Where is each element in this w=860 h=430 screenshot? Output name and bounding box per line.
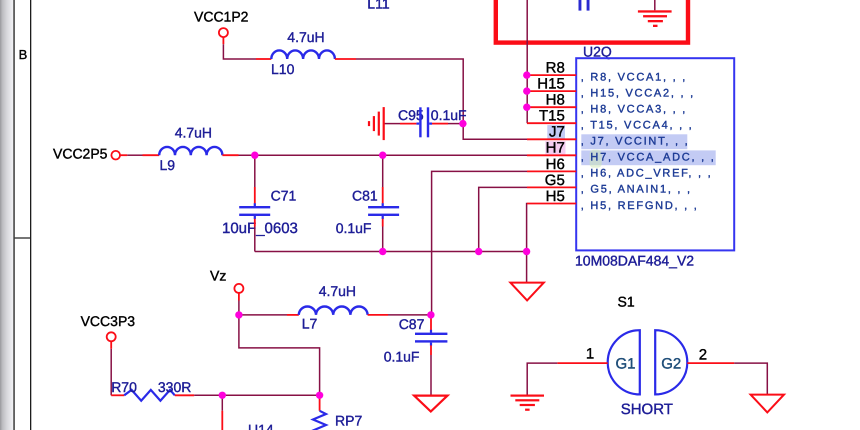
wire Vz elbow down to R70 bus [239,315,320,395]
earth ground inside red box [638,10,672,27]
svg-text:J7: J7 [549,124,565,141]
inductor L7 coil [299,307,368,315]
earth ground (rotated, left of C95) [368,107,385,140]
wire red stub out of L9 [222,154,238,156]
svg-text:, T15, VCCA4, , ,: , T15, VCCA4, , , [581,120,694,132]
wire pin1 to earth ground [527,363,557,395]
svg-text:0.1uF: 0.1uF [336,220,372,236]
junction node U14 [219,392,226,399]
svg-text:4.7uH: 4.7uH [175,124,212,140]
svg-text:G2: G2 [661,355,681,372]
wire VCC2P5 to L9 [127,154,142,156]
wire red stub out of R70 [175,394,194,396]
capacitor C87 plates [430,330,432,333]
wire C87 to ground [430,355,432,396]
highlight green marker on H7 [590,150,602,168]
highlight VCCA_ADC row [581,150,715,165]
wire VCC1P2 down and to L10 [223,44,256,59]
sheet border gray strip [0,0,31,430]
pin H7 stub [527,154,576,156]
wire VCCA vertical from top [526,0,528,123]
wire C71 bottom to bus2 [254,227,256,252]
svg-text:H7: H7 [546,140,565,157]
wire C95 right to junction [448,123,463,125]
junction node at C95 tap [459,120,466,127]
junction node C81/bus2 [379,248,386,255]
wire red stub C81 bottom [382,219,384,227]
pin R8 stub [527,74,576,76]
wire H6 (ADC_VREF) [432,171,527,315]
wire L10 to J7 elbow [356,59,527,139]
pin 2 stub [687,362,734,364]
power port VCC1P2 pin circle [219,28,228,37]
wire H5 (REFGND) [526,204,528,252]
wire main bus to H7 [239,154,528,156]
capacitor C81 plates [382,203,384,206]
pin H6 stub [527,170,576,172]
pin red stub RP7 [319,395,321,411]
wire Vz down [238,301,240,315]
wire R70 bus [194,394,319,396]
wire red stub out of L10 [335,58,356,60]
wire red stub C95 right [432,123,448,125]
power port VCC2P5 pin circle [111,151,120,160]
junction node C87 [427,311,434,318]
pin red stub below Vz [238,293,240,301]
svg-text:H8: H8 [546,92,565,109]
wire red stub into L9 [143,154,160,156]
svg-text:, H15, VCCA2, , ,: , H15, VCCA2, , , [581,87,695,99]
pin red stub below VCC1P2 [222,37,224,44]
svg-text:, H6, ADC_VREF, , ,: , H6, ADC_VREF, , , [581,168,713,180]
svg-text:, H5, REFGND, , ,: , H5, REFGND, , , [581,200,699,212]
svg-text:R8: R8 [546,60,565,77]
wire C81 bottom to bus2 [382,227,384,252]
svg-text:H15: H15 [537,76,565,93]
junction node H15 [523,87,530,94]
sheet border outer line [30,0,31,430]
sheet border inner line [13,0,14,430]
highlight J7 pin label [547,125,565,139]
svg-text:, G5, ANAIN1, , ,: , G5, ANAIN1, , , [581,184,692,196]
pin 1 stub [557,362,607,364]
jumper S1 half G1 [608,330,640,394]
pin red stub right of VCC2P5 [120,154,127,156]
svg-text:L9: L9 [160,157,176,173]
resistor R70 zigzag [124,390,175,401]
svg-text:G1: G1 [616,355,636,372]
wire down to U14 [221,395,223,410]
junction node G5/bus2 [475,248,482,255]
red highlight box [496,0,688,43]
svg-text:C71: C71 [271,187,297,203]
triangle ground below C87 [414,396,447,412]
svg-text:0.1uF: 0.1uF [384,349,420,365]
wire ground bus [255,251,527,253]
junction node Vz [235,311,242,318]
wire red stub C71 bottom [254,219,256,227]
inductor L9 coil [159,147,222,155]
svg-text:VCC1P2: VCC1P2 [194,9,249,25]
svg-text:B: B [19,47,28,62]
svg-text:T15: T15 [539,108,565,125]
jumper S1 half G2 [655,330,687,394]
wire stub to ground in red box [654,0,656,10]
svg-text:H5: H5 [546,188,565,205]
wire G5 (ANAIN1) [479,187,527,251]
pin H8 stub [527,106,576,108]
inductor L10 coil [271,50,335,59]
power port VCC3P3 pin circle [107,332,116,341]
wire pin2 to triangle ground [734,363,767,395]
wire C81 top [382,155,384,187]
wire red stub C71 top [254,187,256,203]
svg-text:2: 2 [699,347,707,364]
svg-text:10M08DAF484_V2: 10M08DAF484_V2 [575,252,694,268]
pin red stub U14 [221,411,223,430]
highlight H7 pin label [545,141,565,154]
junction node R8 [523,71,530,78]
capacitor C95 plates (vertical) [419,107,421,137]
svg-text:10uF_0603: 10uF_0603 [222,220,298,237]
svg-text:L7: L7 [302,316,318,332]
earth ground at S1 pin1 [511,395,545,411]
svg-text:Vz: Vz [210,267,226,283]
svg-text:, J7, VCCINT, , ,: , J7, VCCINT, , , [581,136,690,148]
svg-text:1: 1 [586,346,594,363]
wire red stub into L7 [287,314,299,316]
pin G5 stub [527,186,576,188]
pin J7 stub [527,138,576,140]
pin H15 stub [527,90,576,92]
svg-text:G5: G5 [545,172,565,189]
highlight VCCINT row [581,134,687,149]
junction node at C81 [379,152,386,159]
junction node RP7 [316,392,323,399]
wire VCC3P3 down to R70 [110,349,112,396]
svg-text:U2Q: U2Q [583,43,612,59]
wire red stub C87 bottom [430,345,432,355]
svg-text:330R: 330R [158,379,191,395]
wire red stub C81 top [382,187,384,203]
svg-text:L10: L10 [271,61,295,77]
svg-text:4.7uH: 4.7uH [319,283,356,299]
wire red stub C87 top [430,315,432,330]
wire red stub C95 left [400,123,416,125]
capacitor C71 plates [254,203,256,206]
svg-text:, H8, VCCA3, , ,: , H8, VCCA3, , , [581,104,687,116]
svg-text:L11: L11 [367,0,390,12]
svg-text:4.7uH: 4.7uH [287,29,324,45]
triangle ground at S1 pin2 [751,395,784,413]
wire red stub into L10 [256,58,271,60]
svg-text:SHORT: SHORT [621,401,673,418]
svg-text:R70: R70 [111,379,137,395]
pin T15 stub [527,122,576,124]
svg-text:VCC3P3: VCC3P3 [81,313,136,329]
svg-text:, R8, VCCA1, , ,: , R8, VCCA1, , , [581,71,687,83]
wire red stub into R70 [111,394,124,396]
svg-text:C81: C81 [352,187,378,203]
junction node H8 [523,104,530,111]
resistor RP7 zigzag (vertical) [313,411,326,430]
junction node H5/bus2 [523,248,530,255]
junction node at C71 [251,152,258,159]
zone divider [15,237,30,238]
wire ground stub to C95 [385,123,401,125]
svg-text:H6: H6 [546,156,565,173]
component T1 remnant strokes [579,0,582,11]
wire L7 to C87 junction [388,314,432,316]
svg-text:, H7, VCCA_ADC, , ,: , H7, VCCA_ADC, , , [581,152,716,164]
svg-text:S1: S1 [618,293,635,309]
wire red stub out of L7 [368,314,388,316]
wire Vz to L7 [239,314,287,316]
U2Q body box [576,58,734,250]
power port Vz pin circle [234,284,243,293]
svg-text:U14: U14 [248,421,274,430]
wire C71 top [254,155,256,187]
pin red stub below VCC3P3 [110,341,112,349]
pin H5 stub [527,203,576,205]
triangle ground below bus2 [510,283,543,301]
svg-text:C87: C87 [399,316,425,332]
svg-text:VCC2P5: VCC2P5 [53,145,108,161]
svg-text:RP7: RP7 [335,412,362,428]
wire bus2 to ground triangle [526,252,528,283]
